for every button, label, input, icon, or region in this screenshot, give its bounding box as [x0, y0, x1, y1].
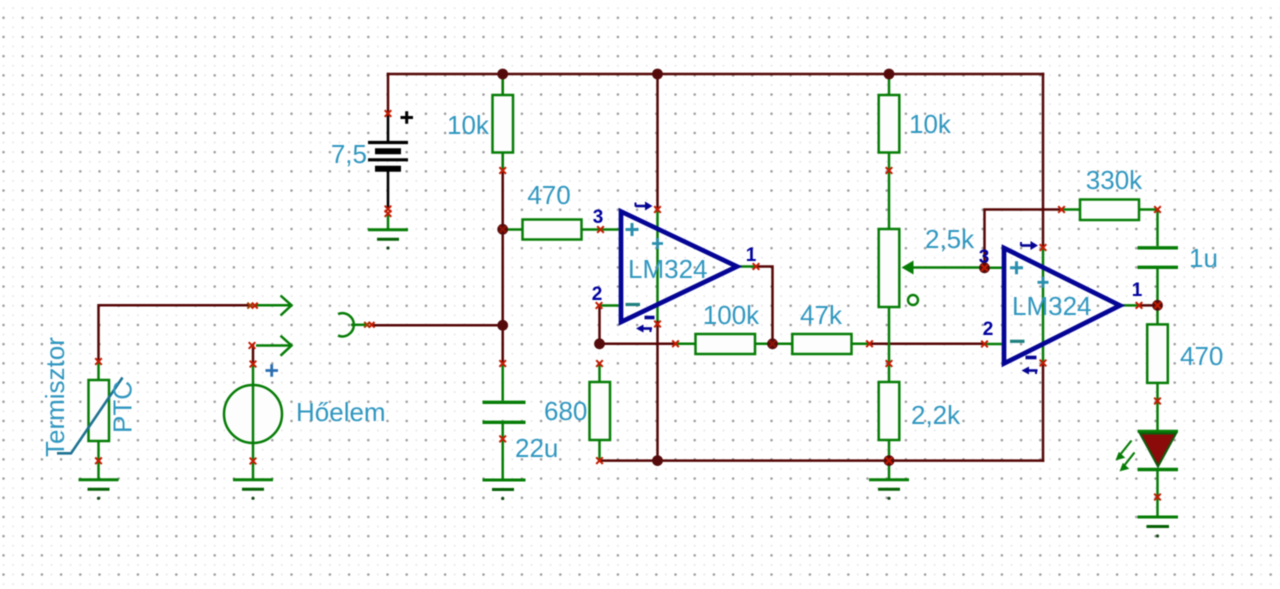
- x R7 top: [886, 360, 893, 367]
- x arrow upper tail a: [247, 303, 253, 309]
- wire 330k left corner down to U2 pin3 node: [985, 210, 1062, 268]
- U1 top power arrow: [636, 202, 653, 211]
- U1 plus input marker: [626, 223, 639, 236]
- node rail-U1 power: [652, 455, 663, 466]
- wire 470 node down to connector node: [501, 229, 504, 325]
- x R5 right: [866, 341, 873, 348]
- node rail-R7 ground: [884, 455, 895, 466]
- x U2 pin2: [981, 341, 988, 348]
- node R4-R5 / U1 out: [767, 338, 778, 349]
- x U1 power top: [654, 206, 661, 213]
- U1 bottom power bar and arrow: [636, 318, 655, 333]
- ground under thermocouple: [233, 461, 273, 489]
- wire bus junction down to 470 node: [501, 74, 504, 229]
- x battery ground: [385, 210, 392, 217]
- wire feedback row node to 100k: [600, 343, 676, 346]
- LED cathode bar: [1138, 468, 1179, 471]
- svg-text:Hőelem: Hőelem: [296, 397, 386, 427]
- wire top supply bus: [388, 73, 1043, 76]
- svg-text:Termisztor: Termisztor: [40, 337, 70, 457]
- x U2 power bottom: [1040, 360, 1047, 367]
- U1 pin2 stub: [599, 304, 619, 307]
- node bus-R1: [497, 69, 508, 80]
- plug arrow lower (thermocouple output): [256, 336, 292, 356]
- x C1 bottom: [499, 436, 506, 443]
- svg-text:330k: 330k: [1086, 165, 1143, 195]
- pin end marks (red x): [95, 110, 1161, 500]
- wire thermocouple top stub: [252, 346, 255, 365]
- ground under C1: [483, 480, 526, 490]
- U2 triangle body: [1004, 248, 1120, 364]
- LED triangle body: [1140, 434, 1176, 467]
- node U2 out / C2 / R9: [1152, 300, 1163, 311]
- svg-text:1: 1: [1132, 280, 1143, 301]
- capacitor C2 1u: [1138, 210, 1179, 306]
- U1 triangle body: [621, 212, 737, 323]
- thermistor RT1 PTC: [89, 362, 110, 461]
- thermistor diagonal mark: [57, 378, 123, 454]
- svg-text:LM324: LM324: [1012, 291, 1092, 321]
- x U1 output: [753, 263, 760, 270]
- svg-text:100k: 100k: [703, 300, 760, 330]
- socket connector arc: [338, 313, 366, 336]
- svg-text:680: 680: [544, 396, 587, 426]
- U2 top power arrow: [1021, 241, 1038, 250]
- x thermocouple bottom: [250, 458, 257, 465]
- U1 pin3 stub: [601, 228, 619, 231]
- LED wire from 470: [1156, 401, 1159, 431]
- LED light arrow lower: [1120, 453, 1134, 471]
- ground under thermistor: [79, 461, 119, 489]
- LED D1: [1116, 401, 1178, 516]
- svg-text:2: 2: [592, 284, 603, 305]
- svg-text:2,2k: 2,2k: [911, 400, 961, 430]
- x U1 power bottom: [654, 321, 661, 328]
- resistor R3 680 (vertical under U1 pin2): [590, 364, 611, 460]
- node R2 left: [497, 224, 508, 235]
- x R3 top: [596, 360, 603, 367]
- x R8 right: [1154, 206, 1161, 213]
- thermocouple source V1 Hoelem: [224, 364, 282, 461]
- resistor R7 2,2k (vertical): [879, 382, 900, 460]
- wire U1 output corner down to feedback node: [756, 267, 773, 344]
- wire bottom ground rail: [600, 459, 1043, 462]
- x PTC bottom: [95, 458, 102, 465]
- x U2 out node: [1154, 302, 1161, 309]
- pot wiper wire: [912, 266, 985, 269]
- wire U1 pin2 node to 100k row: [598, 306, 601, 344]
- wire bus right corner down to U2 V+ pin: [1042, 74, 1045, 248]
- wire bus down to U1 V+ pin: [656, 74, 659, 210]
- x R8 left: [1058, 206, 1065, 213]
- U2 bottom power bar and arrow: [1022, 358, 1038, 375]
- thermocouple plus marker: [266, 364, 279, 376]
- x R6 bottom: [886, 167, 893, 174]
- pot lower pin crossing feedback wire: [888, 307, 891, 382]
- U1 minus input marker: [626, 303, 641, 306]
- x U2 output: [1136, 302, 1143, 309]
- x LED cathode: [1154, 494, 1161, 501]
- svg-text:2: 2: [983, 319, 994, 340]
- U2 output stub pin1: [1120, 304, 1139, 307]
- x R4 left: [672, 341, 679, 348]
- x U2 power top: [1040, 244, 1047, 251]
- U2 pin3 stub: [985, 267, 1002, 270]
- resistor R4 100k (horizontal feedback): [676, 334, 773, 354]
- wire U2 output to C2 node: [1139, 304, 1158, 307]
- wire U2 V- pin down to bottom rail corner: [1042, 363, 1045, 461]
- svg-text:1: 1: [746, 245, 757, 266]
- ground under battery: [368, 212, 408, 239]
- node U1 pin2 / R4: [594, 338, 605, 349]
- x battery plus: [385, 110, 392, 117]
- ground under 2,2k: [869, 461, 909, 489]
- svg-text:470: 470: [527, 180, 570, 210]
- x U1 pin2: [596, 302, 603, 309]
- LED cathode wire: [1156, 471, 1159, 516]
- ground under LED: [1138, 517, 1179, 527]
- resistor R5 47k (horizontal): [773, 334, 870, 354]
- node bus-R6: [884, 69, 895, 80]
- U1 internal power wire: [656, 210, 659, 322]
- LED anode bar: [1138, 430, 1179, 433]
- x R7 ground node: [886, 457, 893, 464]
- potentiometer P1 2,5k: [879, 229, 985, 382]
- x connector stub a: [364, 322, 370, 328]
- node connector-C1: [497, 320, 508, 331]
- svg-text:470: 470: [1180, 341, 1223, 371]
- x arrow upper tail b: [252, 303, 258, 309]
- x node R4-R5 junction: [769, 341, 776, 348]
- x R2 right / U1 pin3: [597, 226, 604, 233]
- svg-text:10k: 10k: [909, 109, 952, 139]
- resistor R8 330k (horizontal top right): [1062, 200, 1158, 221]
- x R3 bottom rail: [596, 457, 603, 464]
- x PTC top: [95, 358, 102, 365]
- wire thermistor up and right to plug arrow: [99, 305, 252, 361]
- resistor R9 470 (vertical right): [1147, 305, 1168, 401]
- wire U1 V- pin down to bottom rail: [656, 321, 659, 461]
- svg-text:3: 3: [593, 207, 604, 228]
- resistor R6 10k (right column vertical): [879, 74, 900, 171]
- svg-text:7,5: 7,5: [331, 139, 367, 169]
- pot o marker: [908, 295, 918, 305]
- wire 10k to potentiometer: [888, 171, 891, 230]
- wire connector node down to 22u: [501, 325, 504, 363]
- wire connector to center node: [373, 324, 503, 327]
- x battery minus: [385, 206, 392, 213]
- pot wiper arrowhead: [902, 261, 914, 275]
- svg-text:LM324: LM324: [628, 254, 708, 284]
- x R1 bottom: [499, 167, 506, 174]
- x connector stub b: [369, 322, 375, 328]
- U1 plus power marker: [652, 238, 663, 249]
- x U2 pin3 node: [981, 265, 988, 272]
- U2 pin2 stub: [985, 343, 1002, 346]
- resistor R1 10k (top left vertical): [493, 76, 514, 171]
- op-amp U1 LM324: [592, 202, 757, 333]
- U2 plus power marker: [1038, 277, 1049, 288]
- svg-text:10k: 10k: [447, 110, 490, 140]
- node U2 pin3 / wiper / 330k: [979, 262, 990, 273]
- svg-text:1u: 1u: [1189, 243, 1218, 273]
- x thermocouple top: [250, 361, 257, 368]
- U1 output stub pin1: [737, 265, 756, 268]
- svg-text:2,5k: 2,5k: [925, 224, 975, 254]
- U2 minus input marker: [1010, 340, 1025, 343]
- capacitor C1 22u: [483, 364, 526, 480]
- x R9 bottom: [1154, 398, 1161, 405]
- x arrow lower tail: [249, 342, 256, 349]
- wire battery plus to bus: [387, 74, 390, 114]
- op-amp U2 LM324: [979, 241, 1143, 375]
- svg-text:22u: 22u: [515, 433, 558, 463]
- wire 47k to U2 pin2: [870, 343, 985, 346]
- svg-text:PTC: PTC: [108, 381, 138, 433]
- x node R2 left junction: [499, 226, 506, 233]
- resistor R2 470 (horizontal to U1 pin3): [504, 220, 601, 240]
- U2 plus input marker: [1010, 261, 1023, 274]
- svg-text:47k: 47k: [800, 300, 843, 330]
- battery B1 7,5V: [368, 111, 413, 208]
- U2 internal power wire: [1042, 248, 1045, 364]
- x C1 top: [499, 360, 506, 367]
- plug arrow upper (thermistor output): [256, 296, 292, 316]
- node bus-U1 power: [652, 69, 663, 80]
- LED light arrow upper: [1116, 441, 1131, 460]
